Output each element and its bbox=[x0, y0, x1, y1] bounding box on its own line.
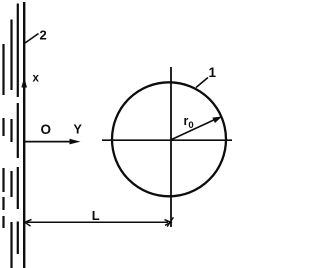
radius arrow r0 bbox=[171, 119, 218, 141]
wall hatch line D bbox=[2, 44, 4, 228]
svg-text:L: L bbox=[92, 208, 100, 223]
wall hatch line B bbox=[17, 4, 19, 255]
y-axis arrow bbox=[25, 141, 72, 143]
wall hatch line C bbox=[10, 20, 12, 268]
svg-text:1: 1 bbox=[209, 65, 217, 80]
svg-text:Y: Y bbox=[74, 123, 83, 137]
svg-text:x: x bbox=[33, 73, 40, 85]
svg-text:r0: r0 bbox=[184, 114, 194, 131]
svg-text:O: O bbox=[41, 122, 52, 137]
leader line to circle 1 bbox=[196, 78, 208, 88]
dimension line L bbox=[27, 221, 168, 223]
vertical diameter line bbox=[170, 67, 172, 227]
circle 1 bbox=[112, 82, 226, 196]
svg-text:2: 2 bbox=[40, 28, 47, 43]
x-axis arrowhead bbox=[21, 77, 27, 88]
leader line to wall 2 bbox=[25, 34, 39, 44]
wall main line 2 / x-axis bbox=[23, 2, 25, 268]
horizontal diameter line bbox=[102, 139, 232, 141]
